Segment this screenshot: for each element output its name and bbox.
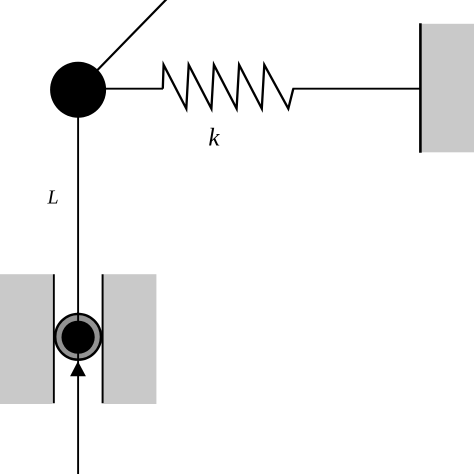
pivot inner pin	[62, 321, 95, 354]
rod segment through bearing	[77, 312, 79, 360]
left guide block	[0, 274, 52, 404]
rod L (vertical)	[77, 89, 79, 474]
svg-text:k: k	[208, 124, 220, 151]
wall (fixed support, right side)	[420, 23, 474, 153]
wire spring end to wall	[293, 88, 421, 90]
left slot line	[53, 274, 55, 403]
arrow up under pivot	[70, 361, 86, 376]
wire horizontal link ball to spring and spring to wall	[78, 88, 163, 90]
spring k (zigzag)	[163, 65, 293, 109]
pivot bearing outer ring	[55, 314, 101, 360]
mass ball	[50, 62, 106, 118]
right guide block	[104, 274, 157, 404]
diagonal rod segment above ball	[78, 0, 167, 90]
svg-text:L: L	[47, 187, 59, 209]
right slot line	[102, 274, 104, 403]
